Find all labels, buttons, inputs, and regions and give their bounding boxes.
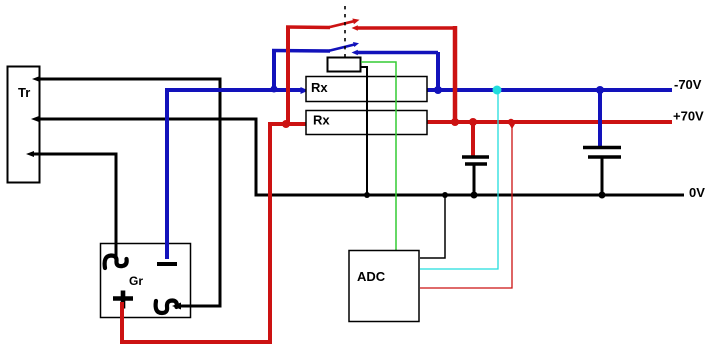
red wire switch to +70V rail: [453, 26, 458, 122]
black wiper wire coil box to 0V rail: [361, 67, 367, 195]
junction blue drop / -70V rail: [434, 86, 442, 94]
ADC U1: [349, 251, 419, 322]
blue switch S1b right contact: [352, 50, 439, 56]
capacitor C1: [462, 118, 489, 199]
svg-text:Rx: Rx: [311, 80, 328, 95]
svg-text:ADC: ADC: [357, 269, 386, 284]
junction wiper / 0V rail: [364, 192, 370, 198]
svg-text:Gr: Gr: [129, 274, 143, 288]
wire Tr winding 1 to Gr right terminal: [32, 76, 220, 310]
wire Tr winding 2 to 0V rail: [31, 116, 684, 195]
red switch S1a right contact: [352, 25, 456, 31]
red switch S1a lever: [328, 19, 360, 28]
Gr blue terminal bar: [157, 262, 177, 266]
blue -70V rail left portion: [165, 87, 309, 94]
resistor Rx1: [306, 77, 427, 102]
svg-text:0V: 0V: [689, 185, 705, 200]
blue switch riser left: [272, 50, 276, 90]
mechanical link dashed line: [344, 6, 346, 57]
relay coil box: [328, 58, 361, 72]
svg-text:Rx: Rx: [313, 113, 330, 128]
red switch riser left: [286, 27, 290, 124]
junction blue riser / -70V rail: [271, 86, 278, 93]
svg-text:Tr: Tr: [18, 85, 30, 100]
capacitor C2: [583, 86, 621, 199]
Gr plus terminal: [113, 291, 133, 309]
svg-text:+70V: +70V: [673, 109, 704, 124]
thin red wire +70V rail to ADC: [420, 119, 517, 288]
Gr left sine terminal: [105, 256, 127, 269]
junction red drop / +70V rail: [451, 118, 459, 126]
green wire coil box to ADC: [361, 62, 396, 250]
junction 0V / ADC wire: [442, 192, 448, 198]
resistor Rx2: [306, 111, 427, 135]
blue wire switch to -70V rail right: [436, 52, 440, 90]
cyan wire -70V rail to ADC: [420, 90, 498, 269]
red wire +70V to Gr plus terminal: [122, 124, 270, 342]
red +70V rail right portion: [427, 120, 672, 124]
transformer Tr: [8, 67, 40, 183]
blue switch S1b lever: [328, 42, 359, 51]
blue wire Gr terminal to -70V rail: [165, 90, 169, 259]
blue -70V rail right portion: [427, 88, 672, 92]
svg-text:-70V: -70V: [674, 77, 702, 92]
blue switch S1b left lead: [272, 49, 330, 53]
Gr right sine terminal: [156, 301, 177, 314]
black wire 0V rail to ADC: [420, 195, 445, 258]
junction cyan / -70V rail: [493, 86, 502, 95]
generator Gr: [101, 244, 191, 318]
junction red riser / +70V left: [282, 120, 290, 128]
red +70V rail left portion: [268, 122, 306, 126]
wire Tr winding 3 to Gr left terminal: [26, 151, 116, 257]
red switch S1a left lead: [286, 25, 330, 29]
